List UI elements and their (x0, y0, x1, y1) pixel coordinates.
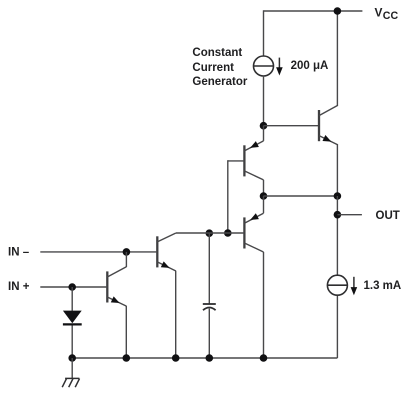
node G junction dot (IN- / Q4 collector) (123, 248, 131, 256)
OUT node junction dot (334, 211, 342, 219)
top supply rail wire (264, 10, 363, 12)
IN- input wire (40, 251, 157, 253)
svg-text:OUT: OUT (376, 210, 400, 222)
IN+ input wire (40, 286, 107, 288)
wire from CS1 down to node A (263, 76, 265, 126)
diode D1 (63, 311, 82, 325)
current source CS1 200uA circle (254, 56, 274, 76)
wire node A to Q1 base (264, 125, 320, 127)
wire Q4 emitter down to bottom rail (125, 306, 127, 358)
wire Q2 collector down to node D (263, 180, 265, 196)
node C junction dot (Q2 base / Q3 base wire) (224, 229, 232, 237)
bottom rail junction dot at Q3 collector (260, 354, 268, 362)
node E junction dot (334, 192, 342, 200)
node F junction dot (capacitor tap) (206, 229, 214, 237)
OUT stub wire (337, 214, 362, 216)
node A junction dot (current source / Q2 emitter / Q1 base) (260, 122, 268, 130)
node D junction dot (260, 192, 268, 200)
svg-text:Constant: Constant (192, 47, 242, 59)
svg-text:IN +: IN + (8, 281, 30, 293)
svg-text:CC: CC (383, 10, 399, 22)
VCC node junction dot (334, 7, 342, 15)
wire Q2 base corner down to node C (227, 160, 229, 233)
wire capacitor C1 down to bottom rail (208, 309, 210, 358)
wire from top rail down to 200uA source (263, 10, 265, 56)
svg-text:V: V (375, 6, 383, 20)
bottom rail junction dot at diode (68, 354, 76, 362)
wire Q1 emitter down to node B (336, 145, 338, 196)
wire Q2 base to left corner (228, 160, 245, 162)
svg-text:Generator: Generator (192, 76, 247, 88)
label VCC (375, 6, 399, 22)
transistor Q3 (lower PNP) (244, 196, 263, 252)
ground symbol (62, 378, 79, 387)
wire Q4 collector up to node G (125, 252, 127, 267)
svg-text:1.3 mA: 1.3 mA (364, 280, 402, 292)
wire diode D1 cathode down to bottom rail (71, 326, 73, 359)
wire Q5 emitter down to bottom rail (175, 271, 177, 358)
ground stem wire (71, 358, 73, 378)
CS1 current direction arrow (276, 58, 283, 76)
bottom rail junction dot at capacitor (206, 354, 214, 362)
transistor Q4 (IN+ input NPN) (107, 267, 126, 306)
transistor Q2 (upper PNP) (244, 126, 263, 180)
svg-text:IN –: IN – (8, 246, 30, 258)
wire node E down through OUT to CS2 (336, 196, 338, 275)
node H junction dot (IN+ / diode) (68, 283, 76, 291)
transistor Q1 (output NPN emitter follower) (319, 105, 338, 145)
bottom ground rail wire (72, 357, 337, 359)
CS2 current direction arrow (351, 277, 358, 296)
capacitor C1 (203, 304, 216, 310)
current source CS2 1.3mA circle (327, 275, 347, 295)
wire node D to node E (OUT branch) (264, 195, 338, 197)
wire CS2 bottom to bottom rail (336, 295, 338, 358)
wire node H down to diode D1 anode (71, 287, 73, 311)
bottom rail junction dot at Q5 emitter (172, 354, 180, 362)
wire Q5 collector to Q3 base (second stage wire) (176, 232, 245, 234)
wire Q3 collector down to bottom rail (263, 252, 265, 358)
VCC net vertical wire (dot to Q1 collector) (336, 10, 338, 105)
transistor Q5 (IN- input NPN) (157, 233, 176, 271)
svg-text:Current: Current (192, 62, 234, 74)
capacitor C1 wire from node F down (208, 233, 210, 304)
svg-text:200 μA: 200 μA (291, 60, 329, 72)
bottom rail junction dot at Q4 emitter (123, 354, 131, 362)
label: Constant Current Generator (192, 47, 247, 88)
